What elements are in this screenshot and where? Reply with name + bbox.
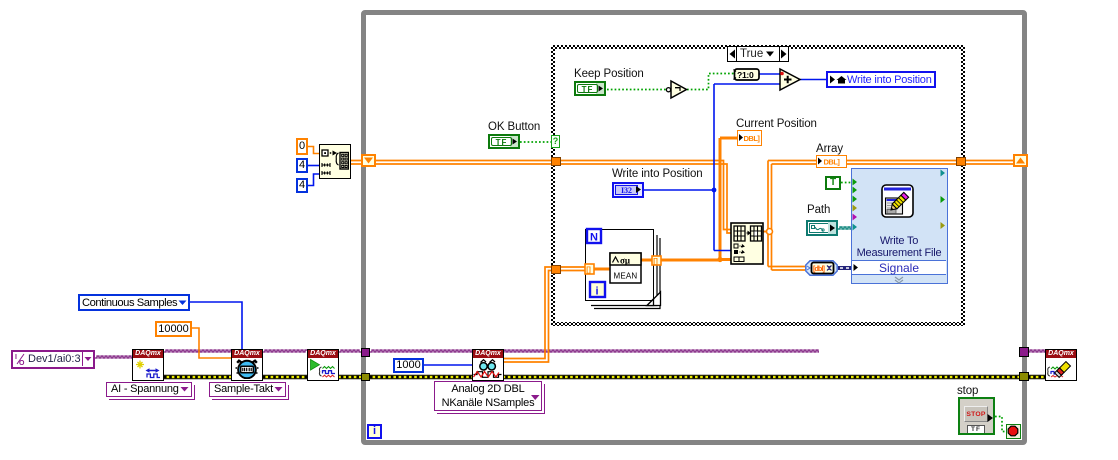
MEAN subVI [610, 253, 641, 283]
add node + [780, 69, 800, 90]
DAQmx Create Virtual Channel node [132, 349, 164, 381]
wire: error (yellow/black) Create to loop [164, 375, 362, 379]
svg-text:MEAN: MEAN [614, 272, 638, 281]
svg-text:N: N [590, 232, 598, 244]
wire: boolean dotted T const to express VI [841, 182, 852, 184]
numeric constant 4 (second) [296, 178, 308, 193]
Boolean to (0,1) node ?1:0 [734, 69, 760, 80]
array indicator Array [DBL] [816, 155, 847, 168]
wire: 1000 to Read (blue) [424, 364, 472, 366]
boolean control Keep Position (TF) [574, 81, 606, 96]
wire: 2D array right case tunnel to right shift register [966, 161, 1013, 165]
loop tunnel error right [1019, 372, 1029, 381]
wire: 1D means array to replace node + Current Position [661, 138, 737, 260]
wire: error inside loop [370, 375, 1019, 379]
label Keep Position [574, 68, 644, 80]
ring constant AI - Spannung [106, 382, 192, 397]
wire: boolean dotted OK Button to case selector [520, 141, 551, 143]
wire: 2D array Init Array to left shift register [351, 161, 362, 165]
case tunnel right (array out) [956, 157, 966, 166]
wire: blue ?1:0 to add [759, 73, 780, 75]
loop tunnel error left [361, 373, 370, 381]
wire: enum Continuous Samples to Timing (blue) [190, 302, 242, 349]
loop tunnel purple left [361, 348, 370, 357]
wire: replace output 2D to Array / right tunnel / convert [763, 231, 767, 233]
numeric control I32 Write into Position [612, 182, 644, 198]
label Path [807, 204, 830, 216]
wire: MEAN output to right for tunnel [641, 259, 652, 262]
replace array subset node [731, 223, 763, 264]
label Current Position [736, 118, 817, 130]
express VI Write To Measurement File [851, 168, 948, 284]
case selector label True [727, 46, 789, 62]
wire: boolean dotted Keep Position to NOT [607, 89, 666, 91]
DAQmx Start Task node [307, 349, 339, 381]
svg-text:i: i [596, 286, 599, 298]
wire: task Timing to Start [263, 350, 307, 352]
wire: const 4 to Initialize Array dim2 [308, 174, 319, 186]
boolean control stop (STOP button) [958, 397, 995, 435]
wire: boolean dotted stop to loop condition [995, 417, 1006, 432]
array indicator Current Position [DBL] [737, 130, 762, 146]
wire: error to Clear [1028, 375, 1045, 379]
wire: DAQmx task (purple wavy) Dev1 to Create [95, 356, 132, 358]
enum constant Continuous Samples [78, 294, 190, 311]
local variable Write into Position [826, 71, 936, 88]
label OK Button [488, 121, 540, 133]
numeric constant 0 (DBL) [296, 138, 308, 155]
boolean constant T [825, 176, 841, 190]
svg-text:σμ: σμ [620, 256, 630, 266]
svg-text:DBL]: DBL] [824, 158, 841, 167]
loop condition terminal [1006, 424, 1021, 439]
numeric constant 4 [296, 158, 308, 173]
wire: task Start to loop tunnel [339, 350, 361, 352]
for loop N terminal [587, 229, 601, 244]
for loop i terminal [590, 282, 605, 298]
convert to dynamic data node [805, 260, 838, 276]
wire: 1D row inside for loop to MEAN [594, 268, 610, 271]
svg-text:[dbl]: [dbl] [813, 266, 825, 273]
right shift register [1013, 154, 1028, 167]
wire: task inside loop to right tunnel [370, 350, 819, 352]
wire: blue I32 net to add and replace index [644, 84, 780, 251]
svg-text:[]: [] [586, 267, 591, 274]
DAQmx Read node [472, 349, 504, 381]
express VI input/output arrows [852, 169, 949, 285]
ring constant Analog 2D DBL NKanäle NSamples [434, 381, 542, 411]
wire: boolean dotted NOT to ?1:0 [687, 74, 734, 90]
wire: dynamic data (navy) convert to express VI [838, 266, 853, 270]
svg-text:[]: [] [653, 259, 658, 266]
case tunnel left (array in) [551, 157, 561, 166]
loop tunnel purple right [1019, 347, 1029, 357]
wire: path (teal wavy) to express VI [838, 227, 851, 229]
path control Path [806, 220, 838, 236]
DAQmx Clear Task node [1045, 349, 1077, 381]
IO constant Dev1/ai0:3 [11, 350, 95, 369]
ring constant Sample-Takt [209, 382, 286, 397]
Initialize Array node [319, 144, 351, 179]
wire: 2D array case tunnel to for loop tunnel [560, 267, 585, 271]
junction dot on 1D wire [717, 257, 722, 262]
while loop i terminal [367, 424, 382, 439]
wire: 2D array shift register to replace node (via case tunnel) [375, 161, 731, 234]
svg-text:DBL]: DBL] [744, 134, 761, 143]
wire: const 4 to Initialize Array dim1 [308, 165, 319, 167]
label Write into Position [612, 168, 703, 180]
for loop right tunnel [] [652, 256, 661, 266]
label stop [957, 385, 978, 397]
while loop [361, 10, 1027, 445]
numeric constant 10000 [155, 321, 192, 337]
svg-text:?1:0: ?1:0 [737, 70, 754, 80]
wire: 10000 to Timing (orange) [192, 328, 231, 358]
junction circle at replace output [767, 229, 773, 235]
DAQmx Timing node [231, 349, 263, 381]
wire: task Create to Timing [164, 350, 231, 352]
for loop left tunnel [] [585, 264, 594, 274]
case selector ? terminal [551, 135, 560, 148]
wire: 2D array Read output up to case tunnel [502, 267, 551, 362]
boolean control OK Button (TF) [488, 134, 520, 149]
wire: const 0 to Initialize Array [308, 147, 319, 154]
left shift register [361, 154, 376, 167]
case structure True (hatched border) [551, 45, 965, 326]
numeric constant 1000 [393, 358, 424, 373]
case tunnel left lower (to for loop) [551, 265, 561, 274]
wire: task right tunnel to Clear [1028, 350, 1045, 352]
label Array [816, 143, 843, 155]
wire: blue add output to local variable [800, 79, 826, 81]
